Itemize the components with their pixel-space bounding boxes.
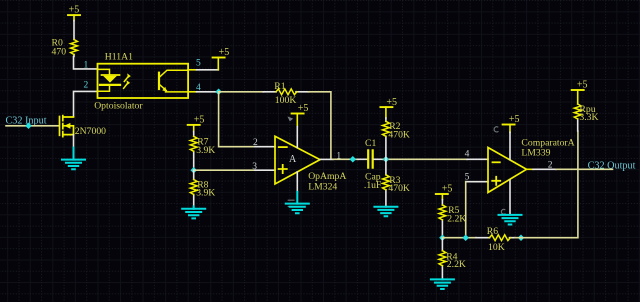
resistor R2 [383,118,390,159]
junction dot R5/R4 [439,234,446,241]
comparator gnd pin [509,180,511,215]
wire R5/R4 junction to R6 [442,237,476,239]
junction dot right of R6 [518,234,525,241]
svg-text:+5: +5 [298,103,309,114]
ground (opamp) [286,192,309,213]
svg-text:4: 4 [465,150,470,160]
mark near comparator +5 [494,127,498,132]
svg-text:Optoisolator: Optoisolator [94,101,143,112]
svg-text:A: A [289,154,297,165]
wire Q1 source to ground [73,135,75,148]
svg-text:5: 5 [465,172,470,182]
wire C32 Input to Q1 gate [6,125,59,127]
resistor R6 [476,235,515,241]
transistor Q1 2N7000 [60,116,74,137]
svg-text:1: 1 [84,60,89,70]
resistor R3 [383,159,390,206]
opto pin 4 lead [188,91,197,93]
svg-text:H11A1: H11A1 [105,52,133,63]
svg-text:10K: 10K [488,242,505,253]
svg-text:3: 3 [252,162,257,172]
LED emission arrows [124,73,131,88]
power +5 above Rpu [572,80,588,104]
svg-text:2N7000: 2N7000 [75,126,106,137]
ground (Q1 source) [62,148,85,170]
gnd pin mark [288,200,294,206]
wire output column up to Rpu [577,131,579,169]
comparator plus sign [492,177,500,185]
opamp output pin lead [320,158,333,160]
svg-text:2: 2 [253,138,258,148]
ground (R8) [182,206,205,218]
svg-text:C1: C1 [365,138,376,149]
phototransistor inside optoisolator [159,70,188,92]
ground (R3) [374,207,397,217]
power +5 above R7 [188,114,205,131]
comparator minus sign [493,161,500,163]
wire C1 to comparator pin 4 [383,158,467,160]
comparator pin 5 lead [466,181,488,183]
svg-text:2: 2 [84,80,89,90]
wire pin5 down to R6 row [465,182,467,238]
svg-text:+5: +5 [194,114,205,125]
junction dot opto pin4 / R1 [215,89,222,96]
op-amp U2A LM324 triangle [275,136,320,184]
optoisolator U? box H11A1 [98,64,189,98]
wire R0 to opto pin 1 [74,57,98,69]
svg-text:R1: R1 [274,81,285,92]
wire R1 right down to output [309,92,331,160]
junction dot opamp out [350,156,357,163]
opamp gnd pin [296,172,298,192]
ground (comparator) [499,215,522,225]
wire junction to opamp pin 3 [194,169,255,171]
svg-text:C32 Input: C32 Input [6,115,47,126]
opto pin 5 lead [188,69,197,71]
capacitor C1 [358,150,383,167]
svg-text:LM324: LM324 [308,181,337,192]
ground (R4) [431,279,454,289]
power +5 above opamp [292,103,309,126]
svg-text:+5: +5 [577,80,588,91]
power +5 above comparator [503,114,520,132]
resistor Rpu [574,104,581,131]
resistor R4 [439,238,446,280]
opamp pin 3 lead [255,169,275,171]
svg-text:+5: +5 [69,5,80,16]
junction dot C1/R2/R3 [383,156,390,163]
junction dot R7/R8 [190,167,197,174]
comparator V+ pin [509,132,511,159]
resistor R8 [190,170,197,206]
svg-text:3.9K: 3.9K [196,145,215,156]
wire R6 to output column [515,169,578,237]
svg-text:5: 5 [196,58,201,68]
wire junction down to opamp pin 2 [219,92,255,147]
wire junction to R1 [219,91,264,93]
svg-text:470: 470 [52,46,67,57]
power +5 top-left [68,5,80,21]
svg-text:470K: 470K [388,130,410,141]
svg-text:C32 Output: C32 Output [588,160,636,171]
LED inside optoisolator [98,69,121,91]
wire comparator out to C32 Output [556,168,613,170]
junction dot pin5 feedback [462,234,469,241]
svg-text:R6: R6 [487,226,498,237]
power +5 above R5 [436,184,453,200]
svg-text:2.2K: 2.2K [447,259,466,270]
svg-text:.1uF: .1uF [364,180,382,191]
svg-text:3.9K: 3.9K [196,188,215,199]
svg-text:470K: 470K [388,183,410,194]
power +5 above R2 [380,97,397,118]
opamp V+ pin [296,127,298,148]
resistor R1 [263,89,308,95]
comparator pin 4 lead [467,158,488,160]
svg-text:+5: +5 [219,47,230,58]
wire opamp out to C1 [333,158,358,160]
svg-text:3.3K: 3.3K [579,112,598,123]
junction dot on input wire [25,123,32,130]
gnd pin mark [501,209,505,214]
opamp minus sign [279,146,287,148]
svg-text:+5: +5 [442,184,453,195]
svg-text:100K: 100K [275,95,297,106]
svg-text:+5: +5 [509,114,520,125]
wire opto pin 2 down to Q1 drain [74,91,98,116]
svg-text:2.2K: 2.2K [447,213,466,224]
resistor R0 [71,21,78,57]
svg-text:LM339: LM339 [521,147,550,158]
resistor R5 [439,200,446,238]
cursor mark near opamp +5 [287,116,293,121]
comparator output pin lead [527,168,534,170]
opamp plus sign [279,165,287,173]
power +5 at opto pin5 [213,47,230,70]
opamp pin 2 lead [255,146,275,148]
svg-text:+5: +5 [386,97,397,108]
comparator U3A LM339 triangle [488,148,527,193]
resistor R7 [190,132,197,171]
